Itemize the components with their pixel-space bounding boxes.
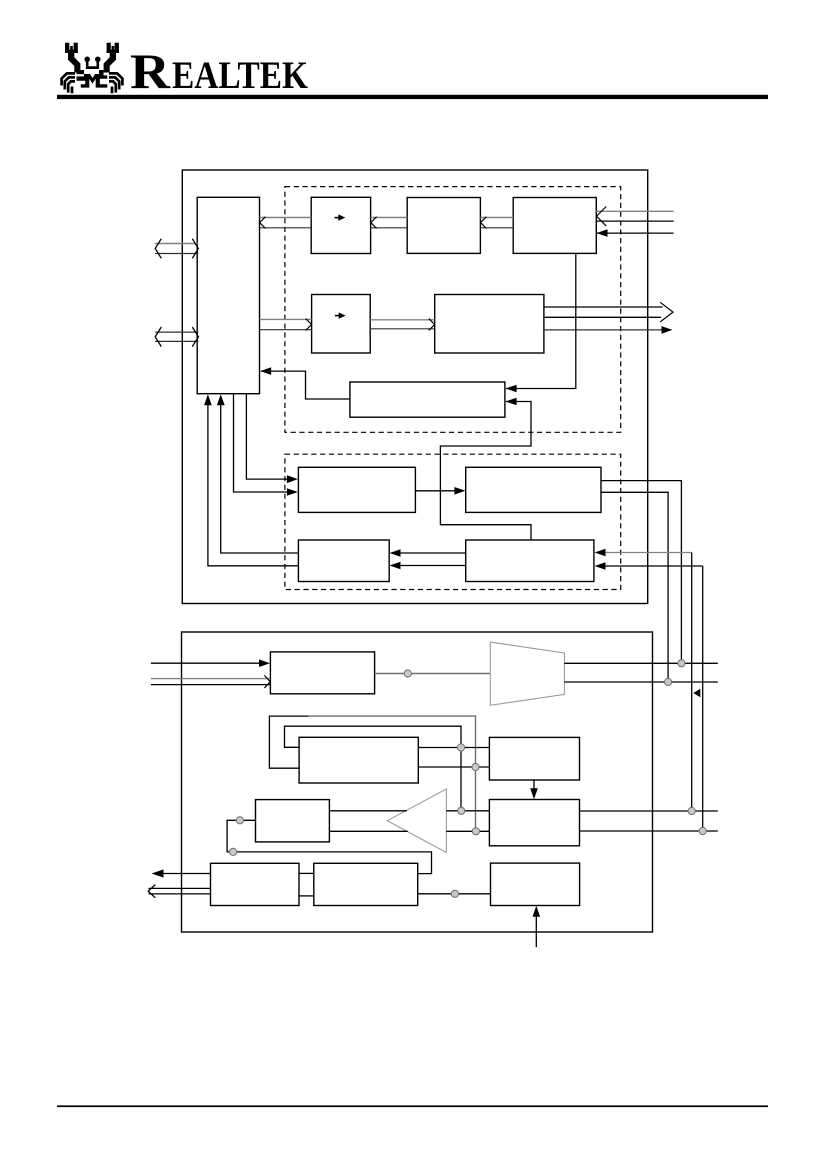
svg-text:R: R: [130, 43, 171, 99]
svg-text:EALTEK: EALTEK: [172, 54, 309, 97]
